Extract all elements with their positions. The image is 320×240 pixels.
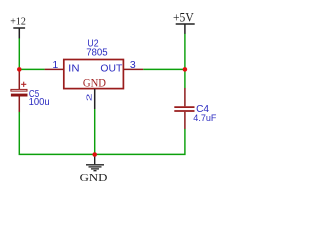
capacitor C4 pin 1 [184, 88, 186, 106]
ground symbol stub [94, 155, 96, 165]
capacitor C5 negative plate (solid) [11, 94, 28, 97]
wire output net horizontal [143, 68, 185, 70]
pin 3 OUT stub [124, 68, 144, 70]
junction node ground rail [92, 152, 97, 157]
wire +12 rail vertical [18, 38, 20, 69]
capacitor C5 positive plate (hollow) [11, 89, 27, 91]
wire +5V rail vertical [184, 34, 186, 70]
svg-text:4.7uF: 4.7uF [193, 113, 216, 123]
power port +5V bar symbol [176, 24, 195, 34]
junction node output [183, 67, 188, 72]
capacitor C5 plus sign [21, 82, 26, 87]
wire output to C4 [184, 69, 186, 88]
capacitor C5 pin 1 [18, 69, 20, 89]
capacitor C4 pin 2 [184, 112, 186, 129]
wire input net horizontal [19, 68, 44, 70]
wire C4 to ground rail [95, 129, 185, 155]
svg-text:OUT: OUT [100, 64, 123, 75]
svg-text:GND: GND [80, 172, 108, 184]
wire pin2 to ground rail [94, 109, 96, 154]
svg-text:2: 2 [86, 93, 94, 101]
power port +12 bar symbol [13, 28, 25, 39]
svg-text:+12: +12 [10, 16, 26, 28]
ground symbol bars [86, 165, 104, 171]
svg-text:7805: 7805 [86, 48, 108, 59]
svg-text:+5V: +5V [173, 10, 194, 24]
svg-text:100u: 100u [29, 97, 50, 108]
pin 1 IN stub [45, 68, 64, 70]
junction node input [17, 67, 22, 72]
wire C5 to ground rail [19, 112, 94, 154]
pin 2 GND stub [94, 89, 96, 109]
capacitor C5 pin 2 [18, 97, 20, 113]
capacitor C4 top plate [174, 106, 194, 108]
capacitor C4 bottom plate [174, 110, 194, 112]
regulator U2 body [64, 60, 124, 89]
svg-text:IN: IN [68, 64, 79, 75]
svg-text:GND: GND [83, 77, 106, 89]
svg-text:1: 1 [52, 59, 58, 71]
svg-text:3: 3 [130, 59, 136, 71]
